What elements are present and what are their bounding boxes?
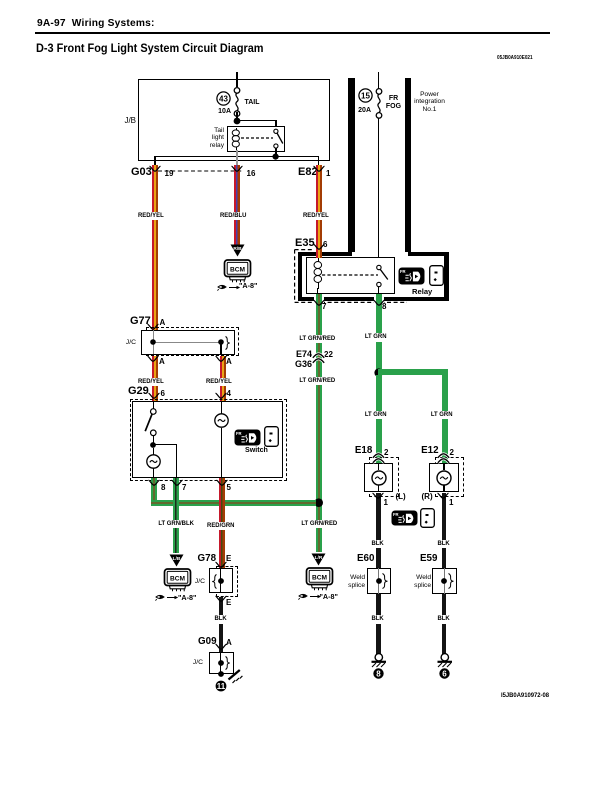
terminal chevron E12-1 — [437, 492, 449, 501]
wire LT GRN/RED relay pin7 down — [316, 294, 322, 552]
wire: node to tail relay switch (horizontal) — [236, 120, 276, 121]
wire BLK E18 to E60 — [376, 493, 381, 569]
G29 fog switch icon — [234, 429, 261, 446]
svg-text:L/R: L/R — [315, 555, 323, 561]
connector G78 pin E bottom — [226, 599, 231, 607]
node: junction dot lamp split — [374, 368, 384, 378]
tail light relay label — [180, 127, 224, 150]
J/B junction block box — [138, 79, 330, 161]
wire RED/YEL E82-1 down to E35 — [316, 165, 322, 251]
connector pin 16 — [245, 170, 257, 178]
wire: stub above fuse 15 — [378, 72, 379, 89]
wire: feed stub above fuse 43 — [236, 72, 237, 87]
G77 dashed boundary — [146, 327, 239, 356]
inline chevrons E12 top — [437, 453, 450, 464]
wire: bus down to pin 19 — [154, 156, 155, 167]
label RED/YEL — [137, 212, 165, 221]
E12 fog lamp bulb — [436, 470, 452, 486]
pin A bottom-right — [226, 358, 232, 366]
relay coil E35 — [311, 258, 327, 290]
node: E60 dot — [376, 578, 383, 585]
relay dashed link (tail) — [241, 137, 273, 140]
inline connector chevrons E74/G36 — [312, 353, 325, 364]
fuse rating 20A — [348, 107, 371, 115]
pin A bottom-left — [159, 358, 165, 366]
bottom right code — [501, 692, 549, 699]
terminal chevron G29-4 — [215, 392, 227, 401]
connector E12 label — [421, 446, 438, 456]
wire: fuse 15 to relay switch — [378, 118, 379, 265]
wire LT GRN down to E18 — [376, 375, 382, 464]
fuse 43 symbol — [230, 87, 244, 118]
wire: switch bottom to bus dot — [275, 148, 276, 157]
wire BLK E60 to ground — [376, 594, 381, 655]
connector E74 pin 22 — [324, 351, 333, 359]
connector E82 label — [298, 167, 318, 177]
connector G03 pin 19 — [163, 170, 175, 178]
G09 internal wire — [220, 653, 221, 675]
E59 weld splice label — [406, 574, 431, 589]
label LT GRN (E18) — [364, 411, 388, 420]
E59 weld splice box — [432, 568, 456, 594]
BCM module icon 3 — [161, 568, 195, 593]
G29 internal: branch to pin7 (horizontal) — [153, 444, 177, 445]
G29 aux connector icon — [264, 426, 279, 447]
fuse 15 circled number — [358, 88, 373, 103]
label BLK (E59) — [437, 615, 451, 624]
E12 internal leads — [443, 463, 444, 470]
relay E35 thick housing — [298, 252, 449, 301]
svg-text:11: 11 — [217, 682, 226, 691]
E12 dashed boundary — [435, 457, 465, 498]
label LT GRN (E12) — [430, 411, 454, 420]
label RED/BLU — [219, 212, 247, 221]
terminal chevron E35-6 — [313, 243, 325, 252]
E59 internal wire — [444, 568, 445, 594]
connector G29 pin 4 — [227, 390, 231, 398]
BCM ref eye + A-8 (3) — [155, 593, 179, 601]
connector E18 label — [355, 446, 372, 456]
terminal chevron E18-1 — [372, 492, 384, 501]
E35 dashed connector boundary — [294, 249, 409, 304]
power integration label — [414, 91, 445, 114]
svg-text:BCM: BCM — [169, 576, 185, 583]
connector G09 label — [198, 637, 217, 647]
wire LT GRN down to E12 — [442, 369, 448, 463]
label BLK (E18) — [371, 540, 385, 549]
svg-text:FR: FR — [393, 511, 399, 516]
connector G29 pin 8 — [161, 484, 165, 492]
node: E59 dot — [441, 578, 448, 585]
BCM module icon 1 — [221, 259, 255, 284]
header rule — [35, 32, 550, 35]
connector G29 label — [128, 386, 149, 396]
terminal chevron E35-8 — [373, 299, 385, 308]
node: G77 right dot — [218, 339, 225, 346]
label BLK (E60) — [371, 615, 385, 624]
node: G29 branch dot — [150, 442, 157, 449]
E35 connector label — [295, 238, 315, 248]
G29 switch box — [132, 401, 283, 478]
svg-text:BCM: BCM — [312, 574, 328, 581]
connector E59 label — [420, 554, 437, 564]
relay E35 inner box — [306, 257, 396, 294]
E18 fog lamp bulb — [371, 470, 387, 486]
G29 internal: dot to lamp — [153, 448, 154, 455]
wire RED/YEL G77 to G29 pin4 — [220, 356, 226, 401]
arrow to BCM (LT GRN/BLK) — [169, 554, 184, 567]
ground E60 — [368, 653, 390, 669]
svg-text:8: 8 — [377, 669, 382, 678]
BCM ref eye + A-8 (2) — [298, 592, 322, 600]
wire: J/B internal bus to pins 19 and 1 — [154, 156, 319, 157]
terminal chevron G77 bottom-left A — [147, 355, 159, 364]
G29 illumination lamp — [146, 454, 161, 469]
connector G77 pin A top — [160, 319, 166, 327]
E12 lamp box — [429, 463, 459, 492]
tail light relay box — [227, 126, 286, 153]
dashed connector line G03 — [158, 170, 243, 173]
arrow to BCM (RED/BLU) — [230, 244, 245, 257]
label BLK — [214, 615, 228, 624]
G78 brace — [211, 574, 217, 589]
wire RED/BLU pin16 down — [234, 165, 240, 246]
terminal chevron G29-7 — [171, 479, 183, 488]
svg-text:L/B: L/B — [173, 556, 181, 562]
G29 dashed boundary — [130, 399, 287, 482]
node: junction dot fog feed — [314, 498, 324, 508]
label LT GRN/RED (lower) — [298, 377, 336, 386]
G29 internal: pin6 lead — [153, 401, 154, 410]
node: G09 dot lower — [218, 671, 225, 678]
ground number 11 — [215, 680, 227, 692]
terminal chevron G77 bottom-right A — [215, 355, 227, 364]
relay coil (tail) — [229, 127, 245, 151]
svg-text:BCM: BCM — [230, 266, 246, 273]
E35 switch bottom stub — [378, 287, 379, 295]
terminal chevron G78-E — [215, 561, 227, 570]
terminal chevron G29-8 — [148, 479, 160, 488]
node: G09 dot upper — [218, 660, 225, 667]
G09 J/C label — [184, 659, 203, 666]
wire RED/GRN G29-5 down to G78 — [219, 478, 225, 569]
E59 brace — [448, 573, 455, 589]
white gap for pin8 crossing housing — [374, 295, 384, 303]
G09 J/C box — [209, 652, 235, 674]
G78 J/C box — [209, 568, 234, 593]
G77 J/C box — [141, 330, 236, 356]
terminal chevron G29-6 — [148, 392, 160, 401]
Relay label — [412, 287, 432, 296]
wire RED/YEL G77 to G29 pin6 — [152, 356, 158, 401]
connector E12 pin 1 — [449, 499, 453, 507]
wire LT GRN/RED horizontal to junction — [151, 500, 316, 506]
node: relay output dot — [271, 152, 281, 162]
connector G29 pin 5 — [227, 484, 231, 492]
white gap for pin7 crossing housing — [314, 295, 324, 303]
G78 internal wire — [220, 568, 221, 593]
svg-text:R/B: R/B — [233, 246, 242, 252]
connector G77 label — [130, 316, 151, 326]
connector E35 pin 8 — [382, 303, 386, 311]
G29 indicator lamp — [214, 413, 229, 428]
wire: bus down to pin 1 — [318, 156, 319, 167]
connector E18 pin 2 — [384, 449, 388, 457]
wire: down to switch top — [275, 120, 276, 130]
label LT GRN/BLK — [157, 520, 194, 529]
top right code — [497, 55, 533, 61]
label RED/YEL — [302, 212, 330, 221]
terminal chevron E82-1 — [313, 165, 325, 174]
wire RED/YEL pin6 into relay — [316, 250, 322, 258]
connector G29 pin 6 — [161, 390, 165, 398]
terminal chevron G77-A — [147, 323, 159, 332]
E60 brace — [382, 573, 389, 589]
terminal chevron pin16 — [231, 165, 243, 174]
E18 lamp box — [364, 463, 394, 492]
fog lamps icon — [391, 510, 418, 526]
G77 internal bus (gray) — [153, 342, 221, 343]
label LT GRN/RED (upper) — [298, 335, 336, 344]
wire: fuse to node — [236, 112, 237, 119]
terminal chevron G09-A — [215, 643, 227, 652]
G77 internal right drop — [220, 342, 221, 355]
connector G78 label — [198, 554, 217, 564]
G29 internal: lamp to pin5 — [221, 428, 222, 478]
relay switch contacts E35 — [372, 263, 394, 289]
svg-text:6: 6 — [442, 669, 447, 678]
relay switch contacts (tail) — [269, 127, 289, 151]
ground number 8 — [373, 668, 384, 679]
wire: relay coil to pin 16 (gray) — [236, 150, 237, 167]
wire RED/YEL G03-19 down to G77 — [152, 165, 158, 330]
wire LT GRN horizontal to right lamp — [378, 369, 447, 375]
connector E60 label — [357, 554, 374, 564]
ground number 6 — [439, 668, 450, 679]
G29 switch symbol — [143, 408, 161, 436]
terminal chevron G03-19 — [149, 165, 161, 174]
G09 ground hatch — [227, 668, 243, 685]
connector G03 label — [131, 167, 152, 177]
svg-text:FR: FR — [236, 431, 242, 436]
wire BLK E12 to E59 — [442, 493, 447, 569]
connector E18 pin 1 — [384, 499, 388, 507]
label (R) — [422, 493, 433, 501]
fuse name TAIL — [245, 99, 260, 107]
relay aux connector icon — [429, 265, 444, 286]
connector E74 label — [296, 350, 312, 358]
E60 weld splice box — [367, 568, 391, 594]
label BLK (E12) — [437, 540, 451, 549]
E35 coil bottom stub — [317, 288, 318, 295]
node: fuse output junction dot — [233, 117, 243, 127]
terminal chevron G29-5 — [216, 479, 228, 488]
label RED/GRN — [206, 522, 235, 531]
connector E35 pin 6 — [323, 241, 327, 249]
connector G09 pin A — [226, 639, 232, 647]
E18 internal leads — [378, 463, 379, 470]
fog lamps aux icon — [420, 508, 435, 528]
connector G29 pin 7 — [182, 484, 186, 492]
wire BLK E59 to ground — [442, 594, 447, 655]
node: G78 dot — [218, 578, 225, 585]
wire LT GRN/RED G29-8 elbow — [151, 478, 157, 506]
terminal chevron E35-7 — [313, 299, 325, 308]
label (L) — [396, 493, 406, 501]
inline chevrons E18 top — [372, 453, 385, 464]
connector E35 pin 7 — [322, 303, 326, 311]
node: G77 left dot — [150, 339, 157, 346]
power integration left wall — [348, 78, 355, 252]
connector E82 pin 1 — [326, 170, 330, 178]
connector G36 label — [295, 360, 312, 368]
J/B label — [110, 117, 136, 125]
G77 J/C label — [116, 339, 136, 346]
wire LT GRN relay pin8 down — [376, 294, 382, 375]
fuse 43 circled number — [216, 91, 231, 106]
label LT GRN (upper) — [364, 333, 388, 342]
E60 weld splice label — [340, 574, 365, 589]
G09 brace — [225, 656, 231, 670]
G29 internal: lamp to pin8 — [153, 468, 154, 478]
G29 internal: pin4 lead — [221, 401, 222, 414]
E60 internal wire — [378, 568, 379, 594]
arrow to BCM (LT GRN/RED) — [311, 553, 326, 566]
label LT GRN/RED (at junction) — [300, 520, 338, 529]
svg-text:15: 15 — [361, 91, 370, 100]
ground E59 — [434, 653, 456, 669]
G29 internal: below switch — [153, 435, 154, 445]
fuse 15 symbol — [372, 88, 386, 120]
fuse name FR FOG — [385, 95, 402, 111]
label RED/YEL (right) — [205, 378, 233, 387]
diagram title — [36, 41, 264, 55]
relay fog icon — [398, 267, 425, 285]
BCM module icon 2 — [303, 567, 337, 592]
page header title — [37, 18, 155, 29]
connector E12 pin 2 — [450, 449, 454, 457]
G78 dashed boundary — [216, 566, 238, 597]
svg-text:43: 43 — [219, 94, 228, 103]
G78 J/C label — [186, 578, 205, 585]
fuse rating 10A — [207, 108, 231, 116]
E18 dashed boundary — [369, 457, 399, 498]
G77 bus brace — [225, 336, 231, 350]
svg-text:FR: FR — [400, 269, 406, 274]
power integration right wall — [405, 78, 412, 252]
Switch label — [245, 446, 268, 454]
BCM ref eye + A-8 (1) — [217, 283, 241, 291]
terminal chevron G78-E bottom — [215, 595, 227, 604]
wire LT GRN/BLK G29-7 down — [173, 478, 179, 553]
G29 internal: pin7 drop — [176, 444, 177, 478]
connector G78 pin E top — [226, 555, 231, 563]
G77 internal left riser (gray) — [153, 330, 154, 354]
relay dashed link E35 — [322, 274, 378, 277]
wire BLK G78 to G09 — [219, 597, 224, 653]
label RED/YEL (left) — [137, 378, 165, 387]
white gap pin6 through housing — [313, 251, 326, 259]
